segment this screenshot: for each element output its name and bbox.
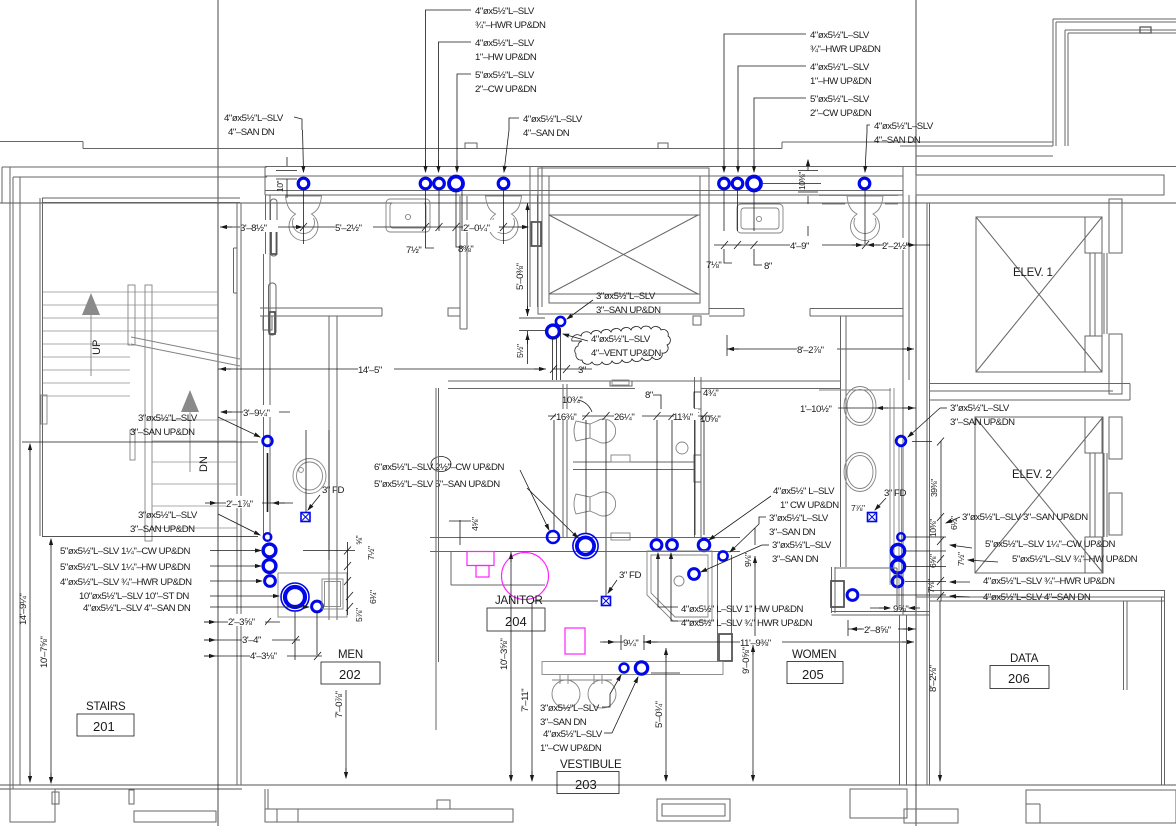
line right of V2 bbox=[651, 672, 680, 674]
svg-text:UP: UP bbox=[91, 340, 103, 355]
svg-text:8'–2⅞": 8'–2⅞" bbox=[797, 345, 824, 356]
right room south wall pieces bbox=[693, 309, 903, 326]
floor drain center bbox=[602, 597, 611, 606]
svg-text:3" FD: 3" FD bbox=[619, 570, 641, 581]
sub dim 7-1/8 bbox=[724, 249, 732, 263]
sleeve A3 bbox=[434, 178, 445, 189]
svg-text:7'–11": 7'–11" bbox=[520, 689, 531, 712]
door leaf stair chase bbox=[269, 283, 277, 335]
shaft riser pipes bbox=[553, 328, 561, 380]
FD leader center bbox=[608, 580, 617, 593]
sleeve R4 bbox=[892, 576, 903, 587]
svg-text:3"øx5½"L–SLV: 3"øx5½"L–SLV bbox=[769, 513, 829, 524]
leaders HW HWR bbox=[658, 553, 678, 621]
leader group C3 CW bbox=[457, 74, 471, 172]
dim text 2-0 bbox=[463, 220, 499, 234]
sleeve R3 bbox=[891, 560, 904, 573]
svg-text:39⅜": 39⅜" bbox=[929, 479, 939, 497]
sleeve W1 bbox=[547, 531, 559, 543]
men room south wall left piece bbox=[260, 308, 382, 330]
sleeve A6 bbox=[719, 178, 730, 189]
svg-text:4'–3⅛": 4'–3⅛" bbox=[250, 651, 277, 662]
door frame dark vestibule right bbox=[719, 634, 732, 661]
janitor basin circle magenta bbox=[502, 553, 549, 600]
cluster leader lines bbox=[210, 551, 355, 608]
wall between elevators bbox=[930, 384, 1131, 401]
bottom wall piece D bbox=[657, 799, 730, 821]
stair west inner wall bbox=[40, 198, 43, 536]
stair treads upper flight bbox=[43, 292, 218, 370]
svg-text:3"–SAN DN: 3"–SAN DN bbox=[772, 554, 819, 565]
sleeve R5 bbox=[847, 590, 858, 601]
svg-text:1"–CW UP&DN: 1"–CW UP&DN bbox=[540, 743, 602, 754]
pipe below B1 bbox=[267, 453, 269, 512]
stair leader line upper bbox=[22, 441, 258, 443]
door frame dark bbox=[271, 228, 277, 254]
men room east wall bbox=[530, 166, 542, 307]
small vert dim right band bbox=[798, 160, 818, 236]
plumbing chase wall left bbox=[264, 254, 271, 538]
leader shaft SAN bbox=[567, 300, 593, 319]
pipes below cluster bbox=[295, 430, 329, 660]
sleeve R1 bbox=[897, 533, 905, 541]
sleeve W6 bbox=[718, 551, 727, 560]
leader to sleeve B2 bbox=[218, 514, 260, 535]
svg-text:1'–10½": 1'–10½" bbox=[800, 404, 831, 415]
svg-text:9⅛": 9⅛" bbox=[743, 553, 753, 567]
svg-text:4"–SAN DN: 4"–SAN DN bbox=[523, 128, 570, 139]
roof parapet top-left bbox=[0, 142, 1053, 157]
svg-text:10⅜": 10⅜" bbox=[928, 519, 938, 537]
elevator2 door track bbox=[1104, 453, 1107, 537]
dim chain 39-3/8 bbox=[912, 438, 944, 602]
svg-text:4"øx5½"L–SLV: 4"øx5½"L–SLV bbox=[810, 62, 870, 73]
west exterior wall bbox=[2, 167, 20, 789]
bottom wall piece C bbox=[265, 789, 513, 822]
sleeve B3 CW bbox=[263, 544, 276, 557]
women riser lines bbox=[554, 420, 704, 596]
svg-text:¾"–HWR UP&DN: ¾"–HWR UP&DN bbox=[475, 20, 546, 31]
svg-text:3'–9¼": 3'–9¼" bbox=[243, 408, 270, 419]
water closet WC1 bbox=[286, 196, 322, 241]
janitor leader to FD bbox=[533, 600, 598, 602]
sleeve W5 bbox=[698, 539, 710, 551]
lavatory sink right room bbox=[737, 204, 783, 233]
janitor west wall bbox=[436, 388, 545, 730]
svg-text:7⅞": 7⅞" bbox=[851, 503, 865, 513]
north wall west wing bbox=[2, 167, 267, 177]
leader group C2 HW bbox=[439, 42, 472, 172]
svg-text:5½": 5½" bbox=[515, 344, 525, 358]
svg-text:5"øx5½"L–SLV 1¼"–CW UP&DN: 5"øx5½"L–SLV 1¼"–CW UP&DN bbox=[985, 539, 1115, 550]
dimension row left room bbox=[220, 223, 528, 231]
svg-text:4"øx5½"L–SLV 4"–SAN DN: 4"øx5½"L–SLV 4"–SAN DN bbox=[83, 603, 191, 614]
dim text 4-9 bbox=[790, 238, 822, 252]
svg-text:3"øx5½"L–SLV: 3"øx5½"L–SLV bbox=[138, 510, 198, 521]
svg-text:5⅞": 5⅞" bbox=[354, 608, 364, 622]
svg-text:8": 8" bbox=[645, 390, 653, 401]
sleeve A7 bbox=[732, 178, 743, 189]
svg-text:3'–8½": 3'–8½" bbox=[240, 223, 267, 234]
wall below elevator2 bbox=[916, 591, 1164, 602]
dim 2-8 right bbox=[848, 620, 916, 636]
svg-text:8⅜": 8⅜" bbox=[458, 244, 473, 255]
leader shaft VENT bbox=[563, 334, 588, 341]
dim text 5-2 bbox=[335, 220, 373, 234]
svg-text:4"øx5½"L–SLV: 4"øx5½"L–SLV bbox=[523, 114, 583, 125]
right room east wall chase bbox=[903, 166, 909, 615]
sleeve A5 bbox=[498, 178, 509, 189]
sleeve S1 bbox=[556, 317, 565, 326]
svg-text:204: 204 bbox=[505, 614, 527, 629]
svg-text:4"øx5½"L–SLV: 4"øx5½"L–SLV bbox=[810, 30, 870, 41]
band leader line bbox=[763, 183, 821, 185]
svg-text:5"øx5½"L–SLV 1¼"–CW UP&DN: 5"øx5½"L–SLV 1¼"–CW UP&DN bbox=[60, 546, 190, 557]
sleeve B1 bbox=[263, 436, 273, 446]
svg-text:16⅜": 16⅜" bbox=[556, 412, 576, 423]
elevator2 shaft bbox=[975, 417, 1103, 573]
svg-text:3"øx5½"L–SLV: 3"øx5½"L–SLV bbox=[596, 291, 656, 302]
women south band bbox=[430, 538, 740, 552]
svg-text:6¾": 6¾" bbox=[368, 590, 378, 604]
dim 11-9 bbox=[644, 641, 914, 643]
svg-text:202: 202 bbox=[339, 667, 361, 682]
svg-text:3": 3" bbox=[578, 365, 586, 376]
dim 5-0 vertical vestibule bbox=[665, 648, 667, 781]
svg-text:3"–SAN UP&DN: 3"–SAN UP&DN bbox=[130, 427, 195, 438]
sleeve W7 shower bbox=[689, 569, 700, 580]
svg-text:3"–SAN UP&DN: 3"–SAN UP&DN bbox=[596, 305, 661, 316]
svg-text:WOMEN: WOMEN bbox=[792, 649, 836, 661]
leader to W7 shower bbox=[701, 545, 769, 572]
riser pipes below band bbox=[304, 190, 866, 244]
svg-text:4'–9": 4'–9" bbox=[790, 241, 809, 252]
svg-text:4"øx5½"L–SLV: 4"øx5½"L–SLV bbox=[224, 113, 284, 124]
svg-text:11⅜": 11⅜" bbox=[673, 412, 693, 423]
dim 14-5 bbox=[218, 365, 592, 373]
water closet WC4 sideways bbox=[574, 380, 630, 462]
svg-text:8": 8" bbox=[764, 261, 772, 272]
women east chase wall bbox=[841, 316, 847, 567]
dim text 3-8 bbox=[240, 220, 278, 234]
svg-text:DATA: DATA bbox=[1010, 653, 1039, 665]
dim 8-2 vertical data bbox=[939, 601, 941, 781]
svg-text:4¾": 4¾" bbox=[703, 388, 718, 399]
construction grid line vertical A bbox=[217, 0, 219, 826]
svg-text:ELEV. 2: ELEV. 2 bbox=[1012, 469, 1052, 481]
leader group R4 SAN bbox=[865, 125, 870, 172]
svg-text:10'–3⅝": 10'–3⅝" bbox=[499, 639, 510, 670]
elevator2 door column mid bbox=[1109, 493, 1122, 535]
dim 7-11 vertical bbox=[531, 602, 533, 781]
svg-text:14'–5": 14'–5" bbox=[358, 365, 382, 376]
elevator2 door column upper bbox=[1109, 417, 1122, 459]
right wall lavatory ovals bbox=[819, 387, 891, 492]
janitor mop sink magenta bbox=[467, 552, 494, 578]
svg-text:3"øx5½"L–SLV 3"–SAN UP&DN: 3"øx5½"L–SLV 3"–SAN UP&DN bbox=[962, 512, 1088, 523]
svg-text:14'–9¼": 14'–9¼" bbox=[18, 594, 29, 625]
right cluster leader lines bbox=[860, 537, 946, 595]
svg-text:7'–0⅞": 7'–0⅞" bbox=[334, 691, 345, 718]
svg-text:4"øx5½"L–SLV 4"–SAN DN: 4"øx5½"L–SLV 4"–SAN DN bbox=[983, 592, 1091, 603]
sub dim 8-3/8 bbox=[456, 231, 464, 247]
svg-text:STAIRS: STAIRS bbox=[86, 701, 126, 713]
svg-text:26¼": 26¼" bbox=[614, 412, 634, 423]
bottom wall piece F bbox=[1026, 790, 1176, 823]
svg-text:5'–2½": 5'–2½" bbox=[335, 223, 362, 234]
svg-text:3"øx5½"L–SLV: 3"øx5½"L–SLV bbox=[950, 403, 1010, 414]
lavatory sink left room bbox=[386, 199, 430, 232]
elevator lobby west wall bbox=[927, 203, 930, 785]
magenta square vestibule bbox=[565, 628, 585, 654]
construction grid line horizontal bottom bbox=[0, 784, 1176, 786]
sleeve B4 HW bbox=[263, 560, 276, 573]
women dim row bbox=[548, 412, 712, 420]
svg-text:1"–HW UP&DN: 1"–HW UP&DN bbox=[475, 52, 537, 63]
floor drain men bbox=[301, 513, 310, 522]
dim 5-0 vertical shaft bbox=[527, 203, 529, 316]
construction grid line horizontal top bbox=[0, 202, 1176, 204]
dim 10-3 vertical bbox=[510, 552, 512, 781]
svg-text:11'–9⅜": 11'–9⅜" bbox=[740, 638, 771, 649]
bottom wall second line bbox=[0, 788, 242, 790]
svg-text:4"øx5½" L–SLV: 4"øx5½" L–SLV bbox=[773, 486, 835, 497]
svg-text:10⅜": 10⅜" bbox=[797, 172, 807, 190]
svg-text:DN: DN bbox=[198, 456, 210, 472]
dim 9-1/8 vert women bbox=[754, 528, 756, 636]
sleeve A4 bbox=[449, 177, 463, 191]
sleeve V2 bbox=[635, 662, 647, 674]
sleeve S2 bbox=[547, 325, 560, 338]
stair east wall bbox=[234, 203, 242, 785]
dim 9.25 bbox=[600, 635, 658, 650]
svg-text:4"–SAN DN: 4"–SAN DN bbox=[228, 127, 275, 138]
elevator1 shaft bbox=[976, 217, 1102, 372]
shower wall right bbox=[718, 555, 732, 662]
svg-text:9¼": 9¼" bbox=[623, 638, 638, 649]
svg-text:3"–SAN UP&DN: 3"–SAN UP&DN bbox=[130, 524, 195, 535]
dim 10-7 vertical bbox=[50, 539, 52, 783]
svg-text:VESTIBULE: VESTIBULE bbox=[560, 759, 622, 771]
svg-text:3"øx5½"L–SLV: 3"øx5½"L–SLV bbox=[540, 703, 600, 714]
sleeve B6 ST big bbox=[281, 583, 309, 611]
sleeve B2 bbox=[264, 533, 272, 541]
sleeve W4 bbox=[667, 540, 678, 551]
svg-text:2"–CW UP&DN: 2"–CW UP&DN bbox=[810, 108, 872, 119]
dim 3-9 top bbox=[221, 411, 290, 413]
svg-text:5"øx5½"L–SLV 5"–SAN UP&DN: 5"øx5½"L–SLV 5"–SAN UP&DN bbox=[374, 479, 500, 490]
stall partition walls bbox=[563, 377, 701, 537]
svg-text:205: 205 bbox=[802, 667, 824, 682]
dim 14-9 vertical bbox=[29, 444, 31, 782]
elevator1 door track bbox=[1104, 253, 1107, 334]
women dim labels bbox=[556, 409, 582, 423]
north wall band of restrooms bbox=[265, 167, 1176, 196]
dim 2-3 bbox=[204, 618, 280, 626]
construction grid line vertical B bbox=[915, 0, 917, 826]
svg-text:9⅝": 9⅝" bbox=[893, 604, 908, 615]
lobby east wall stub below elev2 bbox=[1124, 601, 1128, 690]
svg-text:6⅝": 6⅝" bbox=[928, 554, 938, 568]
FD leader right bbox=[875, 498, 886, 510]
sleeve A8 bbox=[747, 177, 761, 191]
svg-text:2"–CW UP&DN: 2"–CW UP&DN bbox=[475, 84, 537, 95]
svg-text:3'–4": 3'–4" bbox=[242, 635, 261, 646]
leader to sleeve B1 bbox=[218, 417, 260, 437]
svg-text:5"øx5½"L–SLV: 5"øx5½"L–SLV bbox=[475, 70, 535, 81]
sleeve B7 SAN bbox=[312, 601, 323, 612]
stair UP arrow bbox=[82, 293, 100, 376]
svg-text:7½": 7½" bbox=[406, 245, 421, 256]
dim 5.5 vertical shaft bbox=[527, 331, 529, 364]
floor drain right bbox=[868, 513, 877, 522]
svg-text:ELEV. 1: ELEV. 1 bbox=[1013, 267, 1053, 279]
svg-text:4"øx5½" L–SLV ¾" HWR UP&DN: 4"øx5½" L–SLV ¾" HWR UP&DN bbox=[681, 618, 813, 629]
stair treads lower flight bbox=[43, 383, 237, 528]
door frame dark women right bbox=[831, 581, 844, 607]
men room south wall stub piece bbox=[448, 196, 467, 329]
women north wall band bbox=[448, 381, 841, 389]
lavatory oval men bbox=[293, 459, 326, 494]
svg-text:201: 201 bbox=[93, 719, 115, 734]
bottom wall piece B bbox=[129, 790, 216, 822]
dim 1-10 bbox=[838, 407, 916, 409]
leader group R3 CW bbox=[754, 98, 806, 172]
shower stall bbox=[647, 551, 712, 621]
leader group R1 HWR bbox=[724, 34, 806, 172]
door leaf west bbox=[271, 199, 278, 256]
svg-text:4"øx5½"L–SLV: 4"øx5½"L–SLV bbox=[591, 334, 651, 345]
lav counter vestibule bbox=[542, 662, 723, 709]
dim 4-3 bbox=[204, 652, 322, 660]
sleeve R2 bbox=[891, 544, 904, 557]
svg-text:4"øx5½"L–SLV ¾"–HWR UP&DN: 4"øx5½"L–SLV ¾"–HWR UP&DN bbox=[60, 577, 192, 588]
vestibule leaders bbox=[602, 675, 638, 733]
svg-text:203: 203 bbox=[575, 777, 597, 792]
svg-text:5"øx5½"L–SLV: 5"øx5½"L–SLV bbox=[810, 94, 870, 105]
svg-text:3"–SAN UP&DN: 3"–SAN UP&DN bbox=[950, 417, 1015, 428]
leader group C1 HWR bbox=[426, 10, 472, 172]
svg-text:9'–0⅝": 9'–0⅝" bbox=[741, 647, 752, 674]
bottom wall piece A bbox=[10, 789, 59, 822]
svg-text:5'–0¾": 5'–0¾" bbox=[654, 701, 665, 728]
dim 9-0 vertical bbox=[752, 645, 754, 781]
leader 3SAN top right bbox=[908, 408, 947, 437]
pipes right chase bbox=[890, 388, 902, 610]
svg-text:1" CW UP&DN: 1" CW UP&DN bbox=[780, 500, 839, 511]
leader 3SAN DN to W6 bbox=[730, 517, 766, 552]
leaders to W1 W2 bbox=[520, 470, 549, 530]
roof terrace room top-right bbox=[1053, 19, 1176, 146]
leader group C4 SAN bbox=[504, 118, 519, 172]
svg-text:10": 10" bbox=[275, 180, 285, 192]
svg-text:4"–VENT UP&DN: 4"–VENT UP&DN bbox=[591, 348, 661, 359]
shaft tick lines bbox=[519, 318, 545, 331]
men toilet room west wall bbox=[266, 195, 271, 254]
elevator1 door column upper bbox=[1109, 199, 1122, 253]
dim 9-5/8 right bbox=[870, 607, 920, 609]
svg-text:3" FD: 3" FD bbox=[884, 488, 906, 499]
svg-text:3"øx5½"L–SLV: 3"øx5½"L–SLV bbox=[772, 540, 832, 551]
svg-text:4"øx5½"L–SLV: 4"øx5½"L–SLV bbox=[475, 38, 535, 49]
sleeve A1 top band bbox=[298, 178, 309, 189]
dim text 2-2 bbox=[882, 238, 909, 252]
svg-text:¾"–HWR UP&DN: ¾"–HWR UP&DN bbox=[810, 44, 881, 55]
leader to W5 from 4CW label bbox=[709, 496, 771, 540]
water closet WC2 bbox=[486, 196, 522, 241]
small dim 4-5/8 bbox=[449, 520, 471, 545]
sleeve B5 HWR bbox=[265, 576, 276, 587]
sleeve R0 top bbox=[896, 436, 906, 446]
sleeve A9 bbox=[859, 178, 870, 189]
svg-text:7½": 7½" bbox=[366, 546, 376, 560]
svg-text:5"øx5½"L–SLV ¾"–HW UP&DN: 5"øx5½"L–SLV ¾"–HW UP&DN bbox=[1012, 554, 1138, 565]
stair break line bbox=[131, 337, 240, 366]
leader group L1 SAN left bbox=[294, 117, 304, 172]
svg-text:206: 206 bbox=[1008, 671, 1030, 686]
stair center rails bbox=[41, 285, 152, 541]
svg-text:2'–2½": 2'–2½" bbox=[882, 241, 909, 252]
svg-text:4"øx5½"L–SLV: 4"øx5½"L–SLV bbox=[543, 729, 603, 740]
svg-text:2'–8⅝": 2'–8⅝" bbox=[864, 625, 891, 636]
svg-text:8'–2⅛": 8'–2⅛" bbox=[928, 665, 939, 692]
sub dim 7.5 bbox=[426, 231, 435, 248]
mop basin box bbox=[278, 573, 347, 617]
alcove walls women right bbox=[832, 567, 930, 615]
svg-text:2'–1⅞": 2'–1⅞" bbox=[226, 499, 253, 510]
svg-text:10⅝": 10⅝" bbox=[700, 414, 720, 425]
svg-text:3" FD: 3" FD bbox=[322, 485, 344, 496]
sleeve V1 bbox=[620, 664, 629, 673]
elevator1 door column lower bbox=[1109, 334, 1122, 394]
sleeve W3 bbox=[651, 540, 662, 551]
svg-text:4"–SAN DN: 4"–SAN DN bbox=[874, 135, 921, 146]
chase east wall men bbox=[329, 316, 337, 620]
svg-text:10'–7⅝": 10'–7⅝" bbox=[39, 637, 50, 668]
corridor band right section bbox=[916, 175, 1164, 195]
dim 3-4 bbox=[204, 636, 300, 644]
svg-text:3"–SAN DN: 3"–SAN DN bbox=[769, 527, 816, 538]
dim 2-1 bbox=[205, 502, 293, 504]
svg-text:4"øx5½" L–SLV 1" HW UP&DN: 4"øx5½" L–SLV 1" HW UP&DN bbox=[681, 604, 803, 615]
sleeve A2 bbox=[420, 178, 431, 189]
svg-text:MEN: MEN bbox=[338, 649, 363, 661]
svg-text:4⅝": 4⅝" bbox=[470, 517, 480, 531]
svg-text:1"–HW UP&DN: 1"–HW UP&DN bbox=[810, 76, 872, 87]
svg-text:7⅛": 7⅛" bbox=[706, 260, 721, 271]
grab circle bbox=[676, 442, 688, 454]
leader group R2 HW bbox=[738, 66, 806, 172]
sleeve W2 big bbox=[573, 533, 598, 558]
svg-text:2'–3⅝": 2'–3⅝" bbox=[228, 617, 255, 628]
sub dim 8 bbox=[754, 249, 762, 265]
svg-text:4"øx5½"L–SLV ¾"–HWR UP&DN: 4"øx5½"L–SLV ¾"–HWR UP&DN bbox=[983, 576, 1115, 587]
small vert dim left band bbox=[276, 157, 297, 198]
water closet WC3 right room bbox=[847, 196, 883, 241]
dim 7-0 vertical bbox=[345, 690, 347, 778]
dimension row right room bbox=[714, 241, 930, 249]
svg-text:5'–0⅜": 5'–0⅜" bbox=[515, 263, 526, 290]
stair DN arrow bbox=[181, 390, 199, 472]
stair enclosure north wall bbox=[42, 198, 240, 203]
svg-text:4"øx5½"L–SLV: 4"øx5½"L–SLV bbox=[874, 121, 934, 132]
svg-text:4"øx5½"L–SLV: 4"øx5½"L–SLV bbox=[475, 6, 535, 17]
svg-text:10"øx5½"L–SLV 10"–ST DN: 10"øx5½"L–SLV 10"–ST DN bbox=[79, 591, 189, 602]
FD leader men bbox=[308, 495, 320, 510]
water closet WC5 sideways bbox=[574, 492, 630, 540]
data room east wall bbox=[1162, 590, 1165, 785]
dim 8-2 horizontal bbox=[727, 335, 914, 356]
